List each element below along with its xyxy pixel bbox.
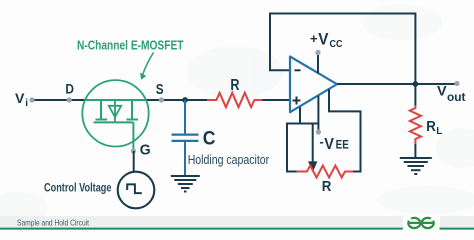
svg-text:R: R	[426, 118, 436, 135]
footer rule right	[440, 228, 474, 230]
transistor Q1 drain contact	[96, 100, 108, 120]
node D	[67, 97, 72, 102]
svg-text:G: G	[140, 141, 151, 158]
transistor Q1 body arrow	[114, 100, 116, 122]
node S	[159, 97, 164, 102]
svg-text:+: +	[310, 31, 318, 46]
svg-text:V: V	[324, 136, 334, 153]
capacitor C plates	[172, 135, 199, 141]
svg-text:EE: EE	[336, 138, 349, 152]
footer rule left	[0, 228, 403, 230]
terminal Vout	[454, 81, 459, 86]
op-amp minus sign	[295, 69, 301, 71]
terminal Vi	[29, 97, 34, 102]
wire S node to capacitor junction	[161, 99, 185, 101]
op-amp U1	[290, 57, 337, 113]
svg-text:R: R	[230, 77, 239, 94]
ground under RL	[400, 158, 432, 174]
footer band	[0, 216, 403, 229]
wire offset pin left stub	[299, 107, 301, 124]
wire feedback: inverting input to output node	[270, 14, 415, 85]
svg-text:V: V	[437, 83, 447, 99]
transistor Q1 MOSFET circle	[82, 80, 148, 146]
svg-text:-: -	[319, 134, 323, 149]
wire MOSFET source to S node	[145, 99, 161, 101]
junction output node	[413, 81, 419, 87]
wire junction to resistor R1	[185, 99, 207, 101]
source V1 control voltage circle	[118, 172, 155, 209]
wire op-amp output to Vout terminal	[337, 83, 455, 85]
resistor RL	[410, 106, 421, 144]
svg-text:D: D	[65, 81, 74, 97]
svg-text:Holding capacitor: Holding capacitor	[188, 152, 270, 167]
wire gate to control voltage source	[133, 151, 135, 172]
transistor Q1 channel bar	[94, 121, 134, 123]
wire RL to ground	[414, 144, 416, 158]
svg-text:C: C	[203, 129, 216, 150]
wire gate	[132, 122, 134, 151]
terminal -Vee	[316, 129, 321, 134]
svg-text:V: V	[318, 31, 328, 49]
svg-text:i: i	[25, 98, 28, 109]
svg-text:out: out	[447, 92, 466, 104]
logo GeeksforGeeks	[408, 218, 434, 228]
terminal G	[131, 148, 136, 153]
resistor R1	[207, 93, 262, 107]
arrow wiper onto R2	[308, 161, 317, 172]
wire Vi to D	[33, 99, 69, 101]
wire +Vcc supply	[317, 54, 319, 73]
transistor Q1 source contact	[127, 100, 139, 120]
wire -Vee supply	[317, 96, 319, 132]
wire junction to capacitor C	[184, 100, 186, 134]
wire offset pin right to R2	[329, 89, 361, 171]
wire junction to wiper arrow	[312, 124, 314, 162]
wire D to MOSFET drain	[69, 99, 86, 101]
terminal +Vcc	[315, 50, 320, 55]
svg-text:Control Voltage: Control Voltage	[44, 182, 112, 194]
ground under capacitor	[171, 176, 200, 192]
svg-text:L: L	[436, 126, 442, 137]
transistor Q1 source-drain chord	[85, 99, 146, 101]
op-amp plus sign	[293, 97, 301, 105]
svg-text:Sample and Hold Circuit: Sample and Hold Circuit	[17, 217, 89, 227]
svg-text:V: V	[15, 90, 25, 106]
svg-text:R: R	[322, 178, 332, 195]
resistor R2	[297, 166, 354, 178]
junction capacitor node	[182, 97, 188, 103]
wire capacitor to ground	[184, 142, 186, 176]
svg-text:CC: CC	[330, 39, 343, 50]
source V1 pulse symbol	[127, 184, 142, 193]
arrow label to MOSFET	[143, 53, 154, 76]
wire R1 to op-amp non-inverting input	[262, 99, 290, 101]
svg-text:N-Channel E-MOSFET: N-Channel E-MOSFET	[77, 38, 184, 52]
wire offset rail to R2	[287, 124, 318, 172]
svg-text:S: S	[156, 81, 164, 98]
wire output node to RL	[414, 84, 416, 106]
